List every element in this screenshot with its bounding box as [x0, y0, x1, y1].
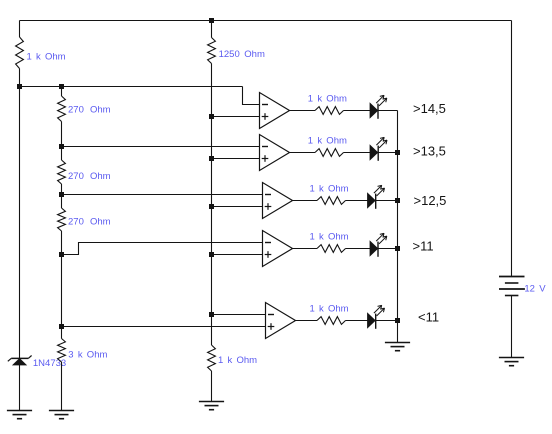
wire resistor to LED 4	[346, 248, 371, 250]
wire divider to op5 inverting input	[212, 314, 266, 316]
svg-text:270: 270	[68, 104, 84, 115]
wire U4 output to resistor	[293, 248, 318, 250]
junction LED bus row 3	[395, 198, 400, 203]
resistor 1 k Ohm (LED 1)	[315, 107, 344, 115]
wire ladder segment 3	[61, 184, 63, 208]
svg-text:Ohm: Ohm	[244, 49, 265, 60]
svg-text:1250: 1250	[219, 49, 240, 60]
ground below LED bus	[385, 343, 410, 351]
junction divider to op1	[209, 114, 214, 119]
svg-text:>11: >11	[413, 239, 434, 254]
junction top bus to divider	[209, 18, 214, 23]
wire divider to ground	[211, 371, 213, 402]
wire tap3 step to op4 inverting input	[62, 243, 263, 255]
junction ladder tap 4	[59, 324, 64, 329]
junction LED bus row 5	[395, 318, 400, 323]
svg-text:<11: <11	[418, 310, 439, 325]
svg-text:Ohm: Ohm	[90, 171, 111, 182]
junction ladder tap 2	[59, 192, 64, 197]
junction ladder tap 3	[59, 252, 64, 257]
junction divider to op5	[209, 312, 214, 317]
wire battery branch top	[511, 21, 513, 277]
resistor 1 k Ohm (LED 3)	[317, 197, 346, 205]
ground below ladder	[49, 411, 74, 419]
wire battery to ground	[511, 296, 513, 358]
wire divider to op4 non-inverting input	[212, 254, 263, 256]
op-amp U1 comparator	[260, 93, 290, 129]
svg-text:12 V: 12 V	[524, 284, 546, 295]
wire ladder to ground	[61, 362, 63, 411]
wire divider bus middle	[211, 64, 213, 346]
LED D2	[370, 95, 387, 119]
svg-text:1 k Ohm: 1 k Ohm	[218, 355, 257, 366]
wire U5 output to resistor	[296, 320, 318, 322]
svg-text:270: 270	[68, 171, 84, 182]
wire step to op1 inverting input	[243, 87, 260, 105]
wire resistor to LED 3	[346, 200, 368, 202]
svg-text:270: 270	[68, 216, 84, 227]
wire LED 5 cathode to LED bus	[376, 320, 398, 322]
junction ladder tap 1	[59, 144, 64, 149]
resistor 1250 Ohm (divider top)	[208, 38, 216, 64]
svg-text:1 k Ohm: 1 k Ohm	[308, 136, 347, 147]
wire LED 2 cathode to LED bus	[378, 152, 397, 154]
wire tap2 to op3 inverting input	[62, 194, 263, 196]
resistor 1 k Ohm (LED 2)	[315, 149, 344, 157]
wire LED bus vertical	[397, 111, 399, 343]
junction LED bus row 2	[395, 150, 400, 155]
zener diode D1 1N4733	[8, 356, 32, 366]
junction LED bus row 4	[395, 246, 400, 251]
battery B1 12 V	[499, 277, 525, 296]
op-amp U3 comparator	[263, 183, 293, 219]
LED D4	[368, 185, 385, 209]
svg-text:1 k Ohm: 1 k Ohm	[27, 52, 66, 63]
junction divider to op4	[209, 252, 214, 257]
junction ladder top node	[59, 84, 64, 89]
wire left branch to zener	[19, 69, 21, 359]
wire divider bus top	[211, 21, 213, 38]
resistor 1 k Ohm (LED 5)	[317, 317, 346, 325]
resistor 270 Ohm (ladder 2)	[58, 160, 66, 184]
junction divider to op3	[209, 204, 214, 209]
wire ladder segment 4	[61, 231, 63, 339]
wire resistor to LED 1	[344, 110, 371, 112]
svg-text:Ohm: Ohm	[90, 104, 111, 115]
wire top +12V bus	[20, 20, 512, 22]
wire reference node horizontal	[20, 86, 243, 88]
op-amp U5 comparator	[266, 303, 296, 339]
svg-text:1 k Ohm: 1 k Ohm	[310, 232, 349, 243]
wire divider to op1 non-inverting input	[212, 116, 260, 118]
resistor 3 k Ohm (ladder bottom)	[58, 339, 66, 363]
wire divider to op3 non-inverting input	[212, 206, 263, 208]
resistor 1 k Ohm (LED 4)	[317, 245, 346, 253]
ground below zener	[7, 411, 32, 419]
wire LED 3 cathode to LED bus	[376, 200, 398, 202]
wire left branch top	[19, 21, 21, 38]
wire U2 output to resistor	[290, 152, 316, 154]
svg-text:>14,5: >14,5	[413, 101, 446, 116]
wire resistor to LED 2	[344, 152, 371, 154]
svg-text:>12,5: >12,5	[414, 193, 447, 208]
resistor 1 k Ohm (zener feed)	[16, 37, 24, 69]
junction reference node at left branch	[17, 84, 22, 89]
resistor 270 Ohm (ladder 1)	[58, 96, 66, 122]
wire tap4 to op5 non-inverting input	[62, 326, 266, 328]
ground below battery	[499, 358, 524, 366]
wire divider to op2 non-inverting input	[212, 158, 260, 160]
svg-text:1 k Ohm: 1 k Ohm	[308, 94, 347, 105]
wire LED 1 cathode to LED bus	[378, 110, 398, 112]
svg-text:3 k Ohm: 3 k Ohm	[68, 350, 107, 361]
wire ladder segment 2	[61, 122, 63, 161]
svg-text:>13,5: >13,5	[413, 144, 446, 159]
wire zener to ground	[19, 365, 21, 411]
svg-text:Ohm: Ohm	[90, 216, 111, 227]
wire LED 4 cathode to LED bus	[378, 248, 398, 250]
wire tap1 to op2 inverting input	[62, 146, 260, 148]
LED D5	[370, 233, 387, 256]
resistor 1 k Ohm (divider bottom)	[208, 345, 216, 371]
op-amp U4 comparator	[263, 231, 293, 267]
wire ladder segment 1	[61, 87, 63, 97]
ground below divider	[199, 402, 224, 410]
LED D3	[370, 137, 387, 161]
op-amp U2 comparator	[260, 135, 290, 171]
junction divider to op2	[209, 156, 214, 161]
wire U3 output to resistor	[293, 200, 318, 202]
resistor 270 Ohm (ladder 3)	[58, 208, 66, 231]
LED D6	[368, 305, 385, 329]
svg-text:1 k Ohm: 1 k Ohm	[310, 184, 349, 195]
wire resistor to LED 5	[346, 320, 368, 322]
svg-text:1 k Ohm: 1 k Ohm	[310, 304, 349, 315]
wire U1 output to resistor	[290, 110, 316, 112]
